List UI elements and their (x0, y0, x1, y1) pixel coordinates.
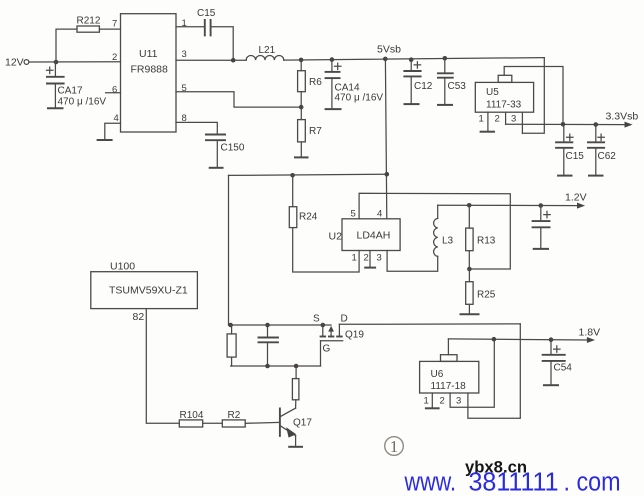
wire R104 to R2 (203, 422, 223, 424)
page number circled 1 (385, 437, 404, 456)
IC U6 1117-18 (420, 355, 479, 393)
node C53 top (443, 56, 448, 61)
capacitor C53 (437, 58, 466, 105)
wire Q19 drain to U6 input (339, 324, 520, 418)
node feedback junction (467, 267, 472, 272)
wire source row (229, 324, 332, 326)
svg-text:2: 2 (495, 114, 500, 125)
wire gate row (231, 365, 321, 367)
ground CA14 (325, 108, 342, 110)
wire Q17 collector (295, 400, 297, 408)
node R6 top (299, 58, 304, 63)
svg-text:1: 1 (479, 114, 484, 125)
svg-text:1.2V: 1.2V (565, 192, 587, 204)
svg-text:U5: U5 (486, 87, 499, 98)
wire U5 pin 2 to output (505, 112, 507, 124)
wire pin 6 stub (106, 92, 121, 94)
wire U11 pin 8 to C150 (176, 122, 217, 134)
snubber capacitor (unlabeled) (258, 325, 279, 366)
wire U6 pin 2 to 1.8V rail (450, 339, 494, 407)
wire pin 1 to C15 (176, 26, 204, 28)
ground U11 pin 4 (97, 139, 113, 141)
svg-text:470 μ /16V: 470 μ /16V (335, 93, 384, 104)
svg-text:R7: R7 (309, 126, 322, 137)
svg-text:C150: C150 (221, 143, 245, 154)
resistor R7 (298, 107, 323, 157)
capacitor C54 (542, 340, 573, 386)
svg-text:3: 3 (377, 253, 382, 264)
ground 1.2V cap (533, 248, 549, 250)
resistor R24 (289, 175, 317, 227)
wire U6 tab up to 1.8V rail (447, 339, 449, 355)
node C62 top (594, 122, 599, 127)
ground U6 pin 1 (425, 407, 440, 409)
svg-text:U11: U11 (139, 48, 158, 60)
node R6/R7/pin5 junction (299, 105, 304, 110)
svg-text:C15: C15 (566, 151, 585, 162)
ground U2 pin 2 (364, 267, 376, 269)
svg-text:6: 6 (112, 85, 117, 96)
node R13 top (467, 203, 472, 208)
svg-text:5: 5 (182, 83, 187, 94)
arrowhead 1.8V (587, 337, 595, 343)
node gate row / resistor (294, 364, 299, 369)
wire R2 to Q17 base (245, 421, 280, 424)
arrowhead 3.3Vsb (625, 122, 633, 128)
svg-text:S: S (313, 314, 320, 325)
node Q19 source (321, 323, 326, 328)
inductor L21 (246, 45, 284, 60)
node C54 top (549, 337, 554, 342)
svg-text:L21: L21 (259, 45, 276, 56)
node 12V input terminal (5, 57, 29, 69)
wire R24 to U2 pin 1 (293, 228, 359, 272)
svg-text:1117-33: 1117-33 (486, 100, 522, 111)
svg-text:3: 3 (511, 114, 516, 125)
capacitor C15 (pins 1-3) (197, 8, 216, 36)
ground CA17 (47, 107, 64, 109)
svg-text:. com: . com (564, 467, 621, 496)
capacitor C15 (3.3Vsb) (555, 124, 584, 175)
svg-text:LD4AH: LD4AH (357, 230, 391, 242)
node 1.2V cap top (539, 203, 544, 208)
ground C12 (404, 103, 420, 105)
ground C150 (209, 167, 224, 169)
wire 5Vsb to U5 pin 3 input (522, 58, 544, 134)
svg-text:3811111: 3811111 (469, 467, 559, 496)
svg-text:2: 2 (364, 253, 369, 264)
ground C62 (588, 175, 604, 177)
wire feedback row to 5Vsb drop (229, 174, 387, 175)
capacitor CA17 470u/16V (46, 62, 106, 108)
svg-text:C62: C62 (598, 151, 617, 162)
node C12 top (409, 57, 414, 62)
resistor R212 (77, 16, 101, 33)
wire 5Vsb rail (284, 58, 545, 61)
wire long vertical to Q19 source row (228, 175, 230, 325)
node U5 out / C15 (561, 122, 566, 127)
node CA14 top (330, 57, 335, 62)
node row/5Vsb drop (385, 172, 390, 177)
wire U11 pin 3 to L21 (176, 59, 246, 61)
node pin3/C15 junction (231, 58, 236, 63)
ground R7 (294, 156, 309, 158)
svg-text:C15: C15 (197, 8, 216, 19)
svg-text:2: 2 (112, 52, 117, 63)
watermark www.3811111.com (404, 467, 621, 496)
arrowhead 1.2V (577, 203, 585, 209)
svg-text:1: 1 (352, 253, 357, 264)
svg-text:4: 4 (114, 113, 119, 124)
svg-text:R13: R13 (477, 236, 496, 247)
svg-text:12V: 12V (5, 57, 24, 69)
MOSFET Q19 (320, 324, 365, 366)
svg-text:Q19: Q19 (345, 330, 364, 341)
ground C54 (543, 384, 559, 386)
wire U2 pin 3 to L3 (387, 251, 438, 272)
node source row / snubber resistor (228, 323, 233, 328)
svg-text:5: 5 (351, 209, 356, 220)
wire pin 82 to R104 (146, 309, 179, 424)
svg-text:Q17: Q17 (293, 418, 312, 429)
svg-text:www.: www. (404, 467, 456, 496)
node R24 top (290, 173, 295, 178)
svg-text:1: 1 (424, 396, 429, 407)
svg-text:U100: U100 (110, 261, 135, 273)
node 5Vsb (383, 57, 388, 62)
IC U2 LD4AH (342, 219, 400, 251)
ground U5 pin 1 (480, 131, 495, 133)
svg-text:3: 3 (182, 49, 187, 60)
svg-text:R2: R2 (228, 410, 241, 421)
wire 12V to U11 pin 2 (29, 61, 121, 63)
wire 5Vsb drop to U2 pin 4 (385, 59, 386, 219)
wire U2 pin 5 feedback loop (359, 193, 510, 269)
wire U6 pin 1 to ground (431, 393, 433, 408)
node gate row / cap (265, 364, 270, 369)
wire 1.2V rail (438, 204, 578, 206)
node pin2/1.8V rail (492, 337, 497, 342)
capacitor C12 (403, 60, 432, 104)
svg-text:5Vsb: 5Vsb (377, 44, 401, 56)
capacitor C150 (205, 135, 245, 168)
svg-text:3: 3 (456, 396, 461, 407)
resistor R104 (179, 410, 204, 427)
capacitor on 1.2V rail (532, 206, 551, 249)
svg-text:R24: R24 (299, 212, 318, 223)
svg-text:82: 82 (133, 311, 145, 323)
svg-text:4: 4 (377, 209, 382, 220)
svg-text:R25: R25 (477, 290, 496, 301)
svg-text:C53: C53 (448, 81, 467, 92)
svg-text:G: G (323, 344, 331, 355)
resistor R6 (298, 60, 323, 107)
ground C15 (3.3Vsb) (557, 175, 572, 177)
capacitor CA14 470u/16V (325, 60, 384, 110)
svg-text:1: 1 (390, 437, 399, 456)
wire U5 tab to output node (504, 67, 563, 125)
IC U11 FR9888 (121, 14, 177, 132)
node junction 12V/CA17/R212 (54, 60, 59, 65)
wire branch to R212 and pin 7 (56, 29, 121, 62)
svg-text:1.8V: 1.8V (579, 327, 601, 339)
svg-text:D: D (341, 314, 348, 325)
IC U100 TSUMV59XU-Z1 (91, 261, 198, 309)
svg-text:U2: U2 (329, 231, 343, 243)
ground C53 (437, 104, 453, 106)
svg-text:2: 2 (440, 396, 445, 407)
snubber resistor (unlabeled) (227, 325, 236, 366)
wire C15 to pin3 node (212, 27, 234, 59)
svg-text:R212: R212 (77, 16, 101, 27)
svg-text:CA17: CA17 (58, 86, 83, 97)
svg-text:R6: R6 (309, 77, 322, 88)
wire U11 pin 5 to R6/R7 node (176, 92, 301, 107)
resistor above Q17 (unlabeled) (292, 366, 299, 400)
svg-text:FR9888: FR9888 (131, 64, 169, 76)
svg-text:3.3Vsb: 3.3Vsb (606, 111, 639, 123)
svg-text:L3: L3 (442, 236, 454, 247)
ground R25 (460, 313, 480, 315)
capacitor C62 (587, 125, 616, 176)
svg-text:U6: U6 (431, 369, 444, 380)
wire 3.3Vsb output (506, 123, 626, 125)
svg-text:C54: C54 (554, 363, 573, 374)
svg-text:C12: C12 (414, 81, 433, 92)
svg-text:TSUMV59XU-Z1: TSUMV59XU-Z1 (109, 285, 188, 297)
wire U2 pin 2 to ground (369, 251, 371, 268)
resistor R2 (222, 410, 245, 427)
svg-text:470 μ /16V: 470 μ /16V (58, 97, 107, 108)
IC U5 1117-33 (475, 75, 533, 112)
wire pin 4 to ground (105, 123, 121, 140)
svg-text:1117-18: 1117-18 (431, 381, 467, 392)
ground Q17 emitter (288, 446, 303, 448)
transistor Q17 (280, 408, 312, 447)
inductor L3 (434, 205, 454, 256)
resistor R25 (466, 269, 496, 314)
svg-text:R104: R104 (180, 410, 204, 421)
wire 1.8V rail (448, 339, 588, 340)
wire U5 pin 1 to ground (487, 112, 489, 132)
node source row / snubber cap (265, 323, 270, 328)
svg-text:7: 7 (112, 19, 117, 30)
resistor R13 (466, 205, 496, 269)
